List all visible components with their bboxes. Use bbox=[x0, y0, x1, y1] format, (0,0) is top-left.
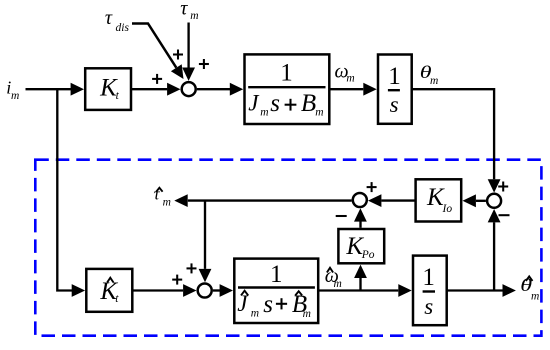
denominator J_m s + B_m bbox=[248, 90, 280, 118]
fraction bar bbox=[423, 290, 435, 292]
arrowhead tau_m into S1 bbox=[182, 68, 195, 81]
wire: omega_hat branch up into K_Po bbox=[359, 278, 361, 291]
svg-text:s: s bbox=[263, 291, 273, 318]
arrowhead theta_m into S2 bbox=[488, 179, 501, 192]
svg-text:Io: Io bbox=[442, 203, 453, 215]
svg-text:m: m bbox=[11, 90, 19, 102]
svg-text:1: 1 bbox=[270, 261, 283, 288]
arrowhead tau_dis into S1 bbox=[171, 64, 184, 79]
plus in denominator bbox=[285, 99, 297, 111]
plus sign for top input of S4 bbox=[187, 263, 197, 273]
minus sign for S2 lower input bbox=[499, 214, 510, 216]
node tau_hat_m label bbox=[154, 184, 171, 208]
svg-text:m: m bbox=[190, 10, 198, 22]
arrowhead pointing left at tau_hat_m bbox=[174, 194, 187, 207]
block Khat_t bbox=[86, 269, 132, 312]
wire: K_Io to S3 bbox=[381, 199, 415, 201]
svg-text:m: m bbox=[346, 72, 354, 84]
wire: tau_dis bent line into S1 bbox=[132, 24, 176, 68]
svg-text:m: m bbox=[315, 106, 323, 118]
node omega_hat_m label bbox=[325, 265, 342, 290]
fraction bar bbox=[388, 89, 400, 91]
minus sign for K_Po input into S3 bbox=[336, 215, 347, 217]
wire: observer block to observer integrator bbox=[318, 289, 398, 291]
plus in observer denominator bbox=[276, 298, 287, 309]
observer boundary (blue dashed box) bbox=[35, 160, 541, 336]
summing junction S2 bbox=[487, 194, 501, 208]
arrowhead theta_hat into S2 bottom bbox=[488, 209, 501, 222]
plus sign for tau_m input bbox=[199, 59, 209, 69]
arrowhead into motor block bbox=[230, 83, 243, 96]
node tau_m label bbox=[180, 0, 198, 22]
arrowhead into Khat_t bbox=[72, 284, 85, 297]
wire: i_m to K_t bbox=[26, 88, 72, 90]
block 1/(J_m s + B_m) bbox=[245, 54, 330, 124]
node theta_m label bbox=[420, 62, 432, 82]
block K_Po bbox=[338, 229, 384, 263]
svg-text:dis: dis bbox=[116, 22, 130, 34]
plus sign theta_m input bbox=[498, 182, 508, 192]
arrowhead into observer motor block bbox=[220, 284, 233, 297]
wire: S2 to K_Io bbox=[476, 200, 486, 202]
plus sign for tau_dis input bbox=[173, 50, 183, 60]
arrowhead at theta_hat_m bbox=[503, 284, 516, 297]
summing junction S1 bbox=[182, 82, 196, 96]
plus sign for K_Io input into S3 bbox=[367, 182, 377, 192]
svg-text:m: m bbox=[303, 308, 311, 320]
summing junction S3 bbox=[353, 193, 367, 207]
arrowhead into S1 bbox=[167, 83, 180, 96]
svg-text:1: 1 bbox=[280, 60, 293, 87]
svg-text:m: m bbox=[163, 197, 171, 209]
svg-text:1: 1 bbox=[422, 264, 435, 291]
svg-text:1: 1 bbox=[388, 63, 401, 90]
arrowhead into K_Io bbox=[463, 194, 476, 207]
block 1/(Jhat_m s + Bhat_m) bbox=[234, 259, 318, 323]
wire: S1 to motor block bbox=[197, 88, 230, 90]
wire: K_Po up into S3 bbox=[359, 221, 361, 228]
svg-text:B: B bbox=[301, 90, 316, 117]
svg-text:m: m bbox=[251, 308, 259, 320]
wire: K_t to summing junction S1 bbox=[131, 88, 167, 90]
wire: S4 to observer motor block bbox=[213, 289, 220, 291]
node tau_dis label bbox=[105, 7, 130, 34]
arrowhead K_Po into S3 bbox=[354, 208, 367, 221]
svg-text:m: m bbox=[334, 278, 342, 290]
svg-text:J: J bbox=[248, 90, 260, 115]
arrowhead into observer integrator bbox=[398, 284, 411, 297]
block K_Io bbox=[416, 179, 462, 221]
node theta_hat_m label bbox=[520, 275, 532, 295]
fraction bar bbox=[238, 286, 315, 288]
arrowhead into S4 from top bbox=[199, 269, 212, 282]
wire: observer integrator out to theta_hat_m bbox=[447, 289, 503, 291]
fraction bar bbox=[248, 86, 325, 88]
wire: Khat_t to S4 bbox=[132, 289, 183, 291]
svg-text:Po: Po bbox=[361, 249, 375, 261]
node omega_m label bbox=[335, 60, 355, 84]
svg-text:s: s bbox=[390, 92, 399, 117]
svg-text:m: m bbox=[260, 106, 268, 118]
arrowhead into K_t bbox=[71, 83, 84, 96]
wire: tau_m down into S1 bbox=[187, 23, 189, 69]
arrowhead into integrator bbox=[363, 83, 376, 96]
arrowhead into S4 bbox=[183, 284, 196, 297]
wire: branch up from theta_hat line into S2 bbox=[493, 222, 495, 290]
node i_m input label bbox=[6, 78, 19, 103]
wire: theta_m right and down to S2 bbox=[412, 89, 494, 179]
svg-text:s: s bbox=[270, 90, 280, 117]
plus sign for left input of S4 bbox=[172, 275, 182, 285]
block K_t bbox=[85, 68, 131, 110]
block 1/s motor integrator bbox=[378, 55, 412, 124]
svg-text:s: s bbox=[424, 294, 433, 319]
denominator Jhat_m s + Bhat_m bbox=[237, 291, 273, 320]
svg-text:m: m bbox=[430, 75, 438, 87]
wire: branch down into S4 bbox=[204, 201, 206, 269]
wire: branch from i_m line down to observer row bbox=[57, 89, 72, 290]
wire: motor block to integrator bbox=[329, 88, 363, 90]
block 1/s observer integrator bbox=[413, 256, 447, 326]
svg-text:m: m bbox=[531, 290, 539, 302]
svg-text:τ: τ bbox=[180, 0, 188, 20]
plus sign for K_t input bbox=[152, 74, 162, 84]
summing junction S4 bbox=[198, 284, 212, 298]
wire: S3 output left to tau_hat bbox=[188, 199, 352, 201]
arrowhead into K_Po bottom bbox=[354, 265, 367, 278]
arrowhead into S3 bbox=[368, 194, 381, 207]
svg-text:τ: τ bbox=[105, 7, 113, 29]
